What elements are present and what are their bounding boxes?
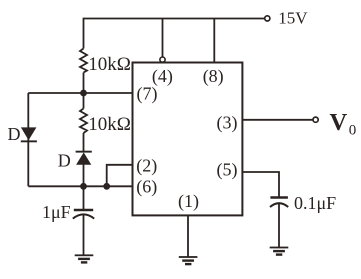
ground (pin1) <box>179 256 198 258</box>
wire bottom row to pin6 <box>28 185 132 187</box>
wire pin2 stub <box>107 165 133 187</box>
svg-text:10kΩ: 10kΩ <box>88 54 131 75</box>
node junction at pin7 row <box>80 90 87 97</box>
svg-text:(2): (2) <box>136 155 157 176</box>
wire pin7 row <box>28 92 132 94</box>
diode D2 <box>76 152 91 164</box>
node junction bottom left <box>80 183 87 190</box>
wire pin4 drop <box>162 19 164 57</box>
wire pin8 drop <box>213 19 215 63</box>
svg-text:0: 0 <box>349 123 357 139</box>
pin 4 bubble <box>160 57 165 62</box>
svg-text:V: V <box>330 109 348 136</box>
svg-text:1μF: 1μF <box>42 202 71 222</box>
node junction bottom pin2 <box>103 183 110 190</box>
svg-text:(8): (8) <box>203 66 224 87</box>
wire pin1 to ground <box>187 215 189 257</box>
wire top rail <box>84 19 265 49</box>
wire mid column below R1 <box>83 73 85 109</box>
svg-text:(1): (1) <box>178 191 199 212</box>
resistor R2 10k <box>80 109 87 134</box>
op-amp U1 555 body <box>133 63 243 216</box>
wire cap2 to ground <box>278 204 280 248</box>
ground (C1) <box>75 254 94 256</box>
wire left branch down <box>27 93 29 186</box>
diode D1 <box>21 127 37 140</box>
svg-text:(3): (3) <box>217 112 238 133</box>
wire mid column below R2 <box>83 133 85 152</box>
svg-text:(6): (6) <box>136 176 157 197</box>
capacitor C2 0.1uF <box>270 198 288 208</box>
svg-text:(5): (5) <box>217 160 238 181</box>
svg-text:D: D <box>8 124 21 144</box>
wire mid column below D2 <box>83 165 85 211</box>
wire pin3 output <box>242 119 312 121</box>
capacitor C1 1uF <box>73 210 94 219</box>
wire cap1 to ground <box>83 215 85 256</box>
ground (C2) <box>270 247 289 249</box>
svg-text:15V: 15V <box>278 9 308 28</box>
svg-text:(7): (7) <box>137 83 158 104</box>
svg-text:D: D <box>58 150 71 170</box>
svg-text:0.1μF: 0.1μF <box>294 193 336 213</box>
node 15V terminal <box>265 16 270 21</box>
resistor R1 10k <box>80 49 87 73</box>
node V0 terminal <box>313 117 318 122</box>
wire pin5 stub <box>242 172 279 198</box>
svg-text:10kΩ: 10kΩ <box>88 114 131 135</box>
